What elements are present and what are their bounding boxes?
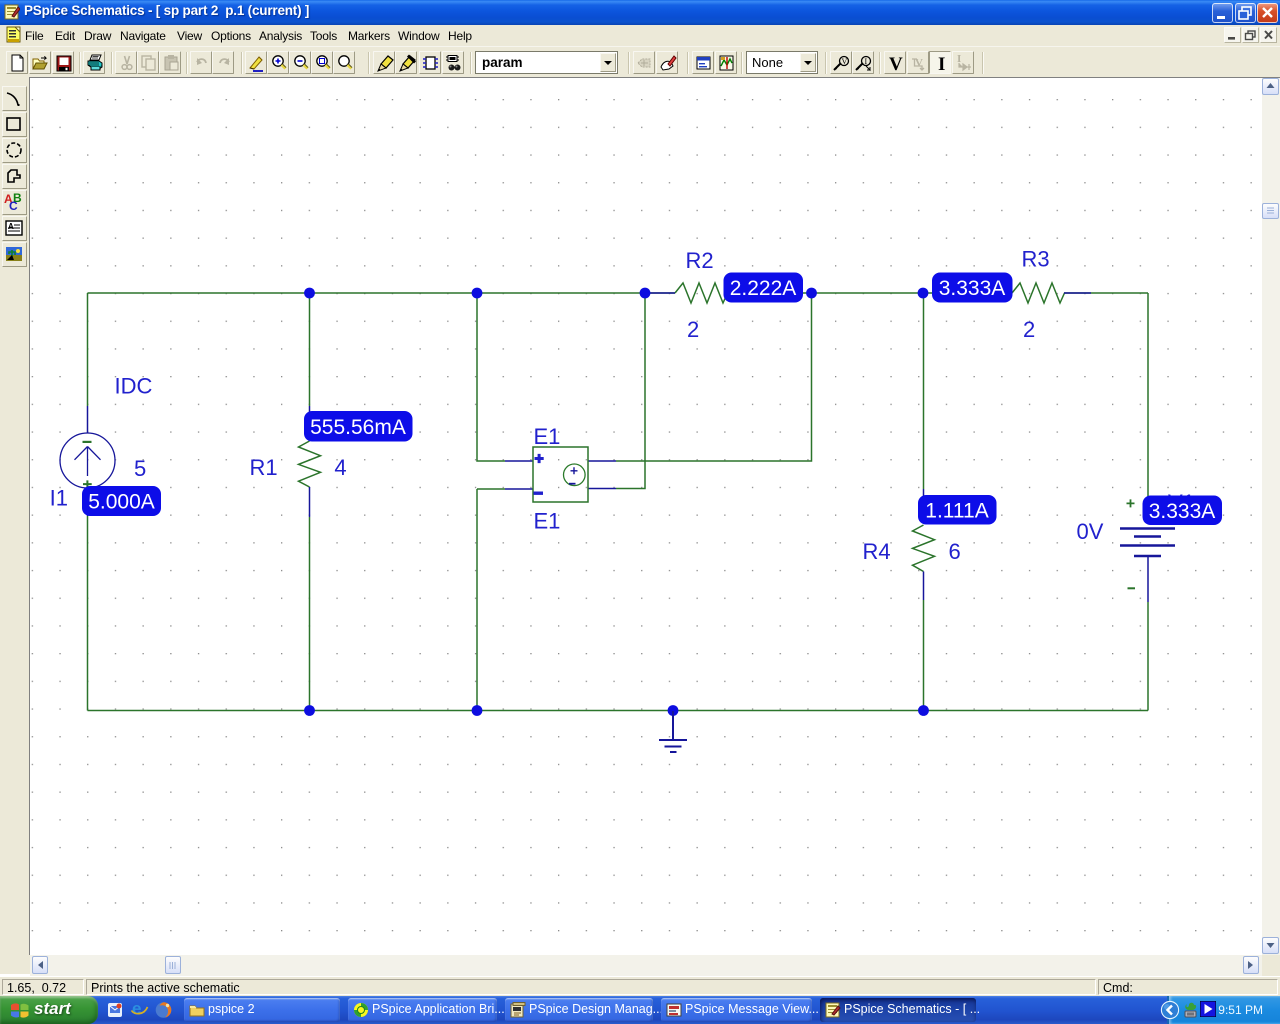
battery V plate short 2 bbox=[1134, 555, 1161, 558]
pin R2 left bbox=[646, 292, 675, 294]
pin R3 right bbox=[1064, 292, 1091, 294]
ibox 3.333A V bbox=[1143, 496, 1223, 526]
current source I1 circle bbox=[60, 433, 115, 488]
svg-text:V: V bbox=[889, 54, 903, 73]
resistor R3 zigzag bbox=[1012, 283, 1065, 303]
battery plus (green) bbox=[1127, 499, 1135, 507]
node top R3 left bbox=[918, 288, 929, 299]
left drawing toolbar bbox=[0, 78, 30, 974]
svg-text:C: C bbox=[9, 199, 18, 213]
battery V plate short 1 bbox=[1134, 535, 1161, 538]
ground symbol bbox=[659, 711, 687, 752]
ibox 1.111A bbox=[918, 495, 997, 525]
svg-text:e: e bbox=[132, 999, 141, 1018]
svg-text:E1: E1 bbox=[534, 509, 561, 534]
vertical scrollbar bbox=[1262, 78, 1280, 955]
wire bottom rail bbox=[88, 710, 1149, 712]
svg-text:5: 5 bbox=[134, 456, 146, 481]
status bar bbox=[0, 976, 1280, 996]
component pin leads navy bbox=[88, 293, 1149, 602]
wire top rail right bbox=[1064, 292, 1148, 294]
E1 inner circle bbox=[564, 464, 586, 486]
wire E1 output lower to node bbox=[616, 293, 645, 489]
wire R4 branch top bbox=[923, 293, 925, 489]
svg-text:V: V bbox=[842, 57, 848, 66]
svg-text:I: I bbox=[865, 57, 868, 66]
svg-text:5.000A: 5.000A bbox=[88, 491, 155, 514]
svg-text:2.222A: 2.222A bbox=[730, 277, 797, 300]
battery V plate long 2 bbox=[1120, 544, 1175, 547]
wire R1 branch top bbox=[309, 293, 311, 406]
ibox 3.333A R3 bbox=[932, 273, 1013, 303]
horizontal scrollbar bbox=[30, 955, 1262, 976]
ibox 555.56mA bbox=[304, 411, 413, 442]
svg-text:2: 2 bbox=[687, 317, 699, 342]
schematic text labels bbox=[50, 247, 1104, 565]
svg-text:R2: R2 bbox=[686, 248, 714, 273]
E1 inner plus (navy) bbox=[571, 467, 578, 474]
battery V plate long top bbox=[1120, 527, 1175, 530]
quick launch icons bbox=[106, 1001, 124, 1019]
pin I1 top bbox=[87, 406, 89, 433]
wire E1 output upper to R2 right node bbox=[616, 293, 812, 461]
wire E1 input branch upper bbox=[477, 293, 505, 461]
pin E1 in+ bbox=[505, 460, 533, 462]
wire right rail lower bbox=[1147, 602, 1149, 711]
svg-text:3.333A: 3.333A bbox=[1149, 500, 1216, 523]
toolbar placeholder: buttons injected below bbox=[0, 46, 1280, 78]
pin R1 top bbox=[309, 406, 311, 441]
node bottom E1 bbox=[472, 705, 483, 716]
pin E1 out- bbox=[588, 488, 616, 490]
wire R4 branch bottom bbox=[923, 600, 925, 711]
E1 input plus label (blue) bbox=[535, 454, 544, 463]
resistor R4 zigzag bbox=[913, 525, 935, 572]
current value boxes bbox=[82, 273, 1222, 526]
svg-text:A: A bbox=[8, 222, 14, 231]
wire left rail bbox=[87, 293, 89, 406]
svg-text:6: 6 bbox=[949, 539, 961, 564]
node top R1 bbox=[304, 288, 315, 299]
menu bar bbox=[0, 25, 1280, 46]
wire right rail upper bbox=[1147, 293, 1149, 497]
wire top rail mid bbox=[727, 292, 1012, 294]
wire left rail lower bbox=[87, 516, 89, 711]
svg-text:I1: I1 bbox=[50, 486, 68, 511]
pin E1 in- bbox=[505, 488, 533, 490]
E1 inner minus (navy) bbox=[569, 483, 576, 485]
task buttons bbox=[184, 998, 340, 1022]
svg-text:R3: R3 bbox=[1022, 247, 1050, 272]
pin I1 bottom bbox=[87, 488, 89, 516]
resistor R2 zigzag bbox=[675, 283, 728, 303]
svg-text:R1: R1 bbox=[250, 455, 278, 480]
svg-text:I: I bbox=[938, 54, 945, 73]
param combo bbox=[475, 51, 618, 74]
node top E1 in bbox=[472, 288, 483, 299]
pin R4 bottom bbox=[923, 572, 925, 601]
node bottom ground bbox=[668, 705, 679, 716]
junction node dots bbox=[304, 288, 929, 716]
svg-text:R4: R4 bbox=[863, 539, 891, 564]
E1 input minus label (blue) bbox=[534, 492, 544, 495]
resistor R1 zigzag bbox=[299, 441, 321, 487]
I1 polarity minus (green) bbox=[83, 441, 92, 443]
svg-text:555.56mA: 555.56mA bbox=[310, 416, 406, 439]
pin R4 top bbox=[923, 489, 925, 497]
ibox 2.222A bbox=[724, 273, 804, 303]
pin V bottom bbox=[1147, 556, 1149, 602]
svg-text:IDC: IDC bbox=[115, 374, 153, 399]
node bottom R1 bbox=[304, 705, 315, 716]
I1 polarity plus (green) bbox=[83, 480, 92, 487]
wire top rail left bbox=[88, 292, 676, 294]
wire R1 branch bottom bbox=[309, 517, 311, 711]
svg-text:3.333A: 3.333A bbox=[939, 277, 1006, 300]
system tray bbox=[1167, 996, 1280, 1024]
ibox 5.000A bbox=[82, 486, 161, 516]
wire E1 input branch lower bbox=[477, 489, 505, 711]
current source I1 arrow bbox=[75, 447, 101, 477]
node top R2 left bbox=[640, 288, 651, 299]
svg-text:0V: 0V bbox=[1077, 519, 1104, 544]
None combo bbox=[746, 51, 818, 74]
svg-text:2: 2 bbox=[1023, 317, 1035, 342]
svg-text:4: 4 bbox=[334, 455, 346, 480]
window title bar bbox=[0, 0, 1280, 25]
vcvs E1 box bbox=[533, 447, 588, 502]
battery minus (green) bbox=[1128, 587, 1136, 589]
taskbar bbox=[0, 996, 1280, 1024]
MDI child window buttons bbox=[1224, 27, 1241, 43]
pin R1 bottom bbox=[309, 487, 311, 517]
svg-text:1.111A: 1.111A bbox=[925, 500, 988, 523]
pin E1 out+ bbox=[588, 460, 616, 462]
node bottom R4 bbox=[918, 705, 929, 716]
node top R2 right bbox=[806, 288, 817, 299]
svg-text:E1: E1 bbox=[534, 424, 561, 449]
